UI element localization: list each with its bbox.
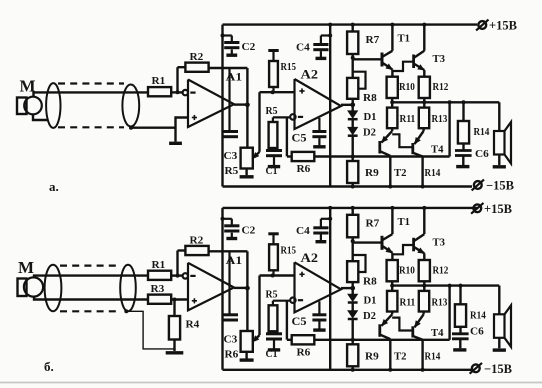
- svg-text:C2: C2: [242, 41, 256, 53]
- svg-text:D1: D1: [364, 295, 377, 306]
- resistor R10 (b): [387, 260, 398, 281]
- transistor T1 (a): [353, 58, 382, 60]
- svg-text:D1: D1: [364, 112, 377, 123]
- resistor R11 (a): [391, 102, 393, 107]
- op-amp A1 (a): [188, 80, 234, 128]
- capacitor C2 (a): [221, 34, 225, 38]
- wire A2 supply vertical (a): [329, 25, 331, 187]
- svg-text:D2: D2: [363, 128, 376, 139]
- svg-text:R2: R2: [190, 235, 204, 247]
- op-amp A2 (a): [295, 79, 342, 129]
- wire output midpoint line (a): [392, 101, 499, 103]
- svg-text:R10: R10: [399, 82, 415, 93]
- svg-text:R13: R13: [432, 114, 448, 125]
- cable shield ellipse right (a): [122, 85, 139, 127]
- svg-text:C2: C2: [242, 224, 256, 236]
- wire T2 emitter to T4 base (b): [392, 318, 413, 331]
- op-amp A1 (b): [188, 263, 234, 311]
- svg-text:R7: R7: [366, 34, 380, 46]
- svg-text:A2: A2: [301, 251, 319, 265]
- diode D1 (b): [352, 288, 354, 294]
- capacitor C5 (b): [318, 301, 320, 314]
- wire R1 to inverting input (a): [171, 91, 182, 93]
- capacitor C6 (b): [459, 327, 461, 334]
- ground R4 (b): [166, 351, 184, 354]
- wire pot wiper to A2 plus input (b): [260, 274, 295, 276]
- resistor R8 trimmer (a): [352, 58, 354, 78]
- svg-text:R5: R5: [225, 165, 239, 177]
- wire mic cold lead (a): [33, 114, 48, 120]
- capacitor C1 (b): [272, 331, 274, 333]
- svg-text:C1: C1: [266, 349, 278, 360]
- transistor T1 (b): [353, 241, 382, 243]
- svg-text:R13: R13: [432, 297, 448, 308]
- svg-text:R12: R12: [433, 82, 449, 93]
- capacitor C1 (a): [272, 148, 274, 150]
- capacitor C4 (a): [328, 34, 332, 38]
- wire R1 to inverting input (b): [171, 274, 182, 276]
- transistor T4 (b): [411, 326, 414, 337]
- capacitor C5 (a): [318, 118, 320, 131]
- svg-text:T4: T4: [431, 145, 444, 156]
- wire T1 emitter to T3 base (b): [392, 245, 413, 254]
- svg-text:R14: R14: [425, 351, 441, 362]
- svg-text:R9: R9: [365, 167, 379, 179]
- svg-text:C1: C1: [266, 166, 278, 177]
- svg-text:−15B: −15B: [484, 362, 512, 376]
- capacitor C3 (b): [228, 251, 230, 314]
- A2 inverting input circle (b): [290, 298, 295, 303]
- svg-text:R7: R7: [366, 217, 380, 229]
- wire A1 output to potentiometer (b): [246, 288, 248, 331]
- svg-text:T1: T1: [398, 217, 411, 228]
- resistor R1 (b): [148, 271, 171, 280]
- wire midpoint to collector bus (a): [448, 102, 450, 156]
- svg-text:R3: R3: [151, 283, 165, 295]
- wire T1 emitter to T3 base (a): [392, 62, 413, 71]
- svg-text:C5: C5: [292, 316, 307, 328]
- wire pot wiper to A2 plus input (a): [260, 91, 295, 93]
- svg-text:R9: R9: [365, 350, 379, 362]
- wire A2 output (b): [341, 287, 353, 289]
- svg-text:A2: A2: [301, 68, 319, 82]
- ground A1 plus input (a): [169, 142, 182, 145]
- wire -15V rail (b): [223, 369, 473, 371]
- resistor R10 (a): [387, 77, 398, 98]
- power +15V terminal (a): [478, 21, 486, 29]
- wire +15V rail (a): [223, 23, 478, 25]
- diode D2 (b): [352, 303, 354, 311]
- svg-text:R1: R1: [152, 259, 166, 271]
- wire plus input to ground (a): [176, 118, 189, 142]
- wire D2 to bus (a): [352, 136, 354, 157]
- wire A2 supply vertical (b): [329, 208, 331, 370]
- svg-text:C3: C3: [224, 333, 238, 345]
- ground potentiometer (a): [240, 175, 254, 178]
- A2 plus glyph (b): [299, 273, 304, 275]
- A2 plus glyph (a): [299, 90, 304, 92]
- resistor R2 (b): [185, 246, 208, 255]
- wire shield to ground (a): [131, 126, 176, 128]
- resistor R2 (a): [185, 63, 208, 72]
- svg-text:T3: T3: [433, 237, 446, 248]
- power +15V terminal (b): [473, 204, 481, 212]
- resistor R6 (a): [292, 152, 315, 161]
- resistor R8 trimmer (b): [352, 241, 354, 261]
- svg-text:R14: R14: [474, 127, 490, 138]
- resistor R11 (b): [391, 286, 393, 291]
- wire +15V rail (b): [223, 207, 478, 209]
- speaker BA1 (b): [498, 286, 500, 315]
- wire shield to R4 ground (b): [124, 309, 128, 313]
- resistor R9 (b): [352, 340, 354, 345]
- diode D2 (a): [352, 119, 354, 127]
- svg-text:R15: R15: [281, 62, 297, 73]
- cable shield ellipse right (b): [120, 265, 136, 311]
- resistor R12 (b): [419, 260, 430, 281]
- ground speaker (a): [493, 165, 506, 168]
- potentiometer R5 (a): [241, 148, 253, 169]
- svg-text:A1: A1: [226, 255, 243, 267]
- wire A1 output to potentiometer (a): [246, 105, 248, 148]
- speaker BA1 (a): [498, 102, 500, 131]
- svg-text:R5: R5: [266, 106, 278, 117]
- svg-text:T1: T1: [398, 34, 411, 45]
- cable shield dashed bottom (a): [58, 126, 124, 128]
- wire T2 emitter to T4 base (a): [392, 134, 413, 147]
- svg-text:+15B: +15B: [484, 202, 512, 216]
- cable shield ellipse left (b): [45, 265, 62, 311]
- svg-text:R4: R4: [186, 319, 200, 331]
- svg-text:+15B: +15B: [489, 19, 517, 33]
- wire A2 inverting to R6 (b): [286, 301, 288, 340]
- resistor R14 zobel (b): [459, 286, 461, 305]
- svg-text:R8: R8: [363, 92, 377, 104]
- ground potentiometer (b): [240, 358, 254, 361]
- power -15V terminal (a): [474, 181, 482, 189]
- potentiometer R6 (b): [241, 331, 253, 352]
- svg-text:R2: R2: [190, 51, 204, 63]
- cable shield dashed top (a): [58, 82, 124, 84]
- transistor T2 (a): [378, 141, 381, 154]
- wire R2 feedback up (a): [176, 67, 178, 92]
- svg-text:a.: a.: [49, 179, 59, 194]
- transistor T3 (b): [412, 238, 415, 252]
- wire R2 to output node (a): [209, 67, 248, 69]
- wire R2 feedback up (b): [176, 251, 178, 276]
- svg-text:R15: R15: [281, 245, 297, 256]
- svg-text:R8: R8: [363, 275, 377, 287]
- resistor R15 (b): [268, 232, 278, 235]
- capacitor C2 (b): [221, 217, 225, 221]
- wire D2 to bus (b): [352, 319, 354, 340]
- wire mic hot lead (b): [34, 276, 148, 279]
- A1 plus glyph (b): [192, 300, 197, 302]
- power -15V terminal (b): [472, 364, 480, 372]
- resistor R9 (a): [352, 157, 354, 162]
- svg-text:T3: T3: [433, 54, 446, 65]
- diode D1 (a): [352, 105, 354, 111]
- cable shield dashed bottom (b): [60, 310, 120, 312]
- wire output feedback bus (b): [314, 339, 449, 341]
- svg-text:C4: C4: [296, 225, 310, 237]
- A2 inverting input circle (a): [290, 114, 295, 119]
- svg-text:−15B: −15B: [486, 179, 514, 193]
- transistor T2 (b): [378, 324, 381, 337]
- svg-text:T2: T2: [394, 351, 407, 362]
- wire mic cold lead (b): [34, 296, 148, 300]
- resistor R3 (b): [148, 295, 171, 304]
- capacitor C6 (a): [462, 144, 464, 151]
- wire mic hot lead (a): [34, 92, 149, 96]
- wire A2 output (a): [341, 104, 353, 106]
- microphone M (a): [17, 98, 27, 115]
- svg-text:R11: R11: [400, 297, 416, 308]
- cable shield ellipse left (a): [46, 83, 60, 128]
- A1 inverting input circle (b): [183, 273, 188, 278]
- resistor R12 (a): [419, 77, 430, 98]
- ground speaker (b): [493, 348, 506, 351]
- capacitor C4 (b): [328, 217, 332, 221]
- page bottom scan edge: [0, 382, 542, 384]
- svg-text:C3: C3: [224, 150, 238, 162]
- wire supply bus left vertical (b): [221, 208, 223, 370]
- transistor T4 (a): [411, 143, 414, 154]
- microphone M (b): [18, 279, 27, 297]
- resistor R4 (b): [173, 300, 175, 317]
- svg-text:R14: R14: [425, 168, 441, 179]
- wire A2 inverting input (b): [273, 300, 290, 302]
- op-amp A2 (b): [295, 262, 342, 312]
- resistor R7 (b): [352, 208, 354, 215]
- svg-text:R6: R6: [297, 163, 311, 175]
- wire -15V rail (a): [223, 185, 473, 187]
- svg-text:C6: C6: [470, 325, 484, 337]
- svg-text:R5: R5: [266, 289, 278, 300]
- wire R3 to plus input (b): [171, 298, 188, 300]
- svg-text:R11: R11: [400, 114, 416, 125]
- svg-text:T4: T4: [431, 328, 444, 339]
- node A1 output (a): [234, 103, 247, 105]
- svg-text:C4: C4: [296, 42, 310, 54]
- node A1 output (b): [234, 287, 247, 289]
- svg-text:C5: C5: [292, 133, 307, 145]
- capacitor C3 (a): [228, 68, 230, 131]
- svg-text:R1: R1: [152, 75, 166, 87]
- svg-text:A1: A1: [226, 72, 243, 84]
- A1 inverting input circle (a): [183, 90, 188, 95]
- wire output feedback bus (a): [314, 155, 449, 157]
- svg-text:C6: C6: [475, 148, 489, 160]
- cable shield dashed top (b): [60, 265, 121, 267]
- resistor R14 zobel (a): [462, 102, 464, 121]
- wire R2 to output node (b): [209, 250, 248, 252]
- wire A2 inverting to R6 (a): [286, 117, 288, 156]
- svg-text:M: M: [18, 258, 34, 277]
- resistor R13 (a): [423, 102, 425, 107]
- wire supply bus left vertical (a): [221, 25, 223, 187]
- resistor R5 (b): [269, 305, 278, 331]
- resistor R1 (a): [148, 87, 171, 96]
- svg-text:T2: T2: [394, 168, 407, 179]
- wire midpoint to collector bus (b): [448, 286, 450, 340]
- resistor R7 (a): [352, 25, 354, 32]
- svg-text:R10: R10: [399, 265, 415, 276]
- svg-text:б.: б.: [44, 359, 54, 374]
- A1 plus glyph (a): [192, 117, 197, 119]
- wire output midpoint line (b): [392, 284, 499, 286]
- transistor T3 (a): [412, 55, 415, 69]
- resistor R15 (a): [268, 49, 278, 52]
- resistor R13 (b): [423, 286, 425, 291]
- svg-text:R6: R6: [225, 348, 239, 360]
- svg-text:R14: R14: [470, 310, 486, 321]
- resistor R6 (b): [292, 335, 315, 344]
- svg-text:D2: D2: [363, 311, 376, 322]
- svg-text:R6: R6: [297, 346, 311, 358]
- wire A2 inverting input (a): [273, 116, 290, 118]
- resistor R5 (a): [269, 122, 278, 148]
- svg-text:R12: R12: [433, 265, 449, 276]
